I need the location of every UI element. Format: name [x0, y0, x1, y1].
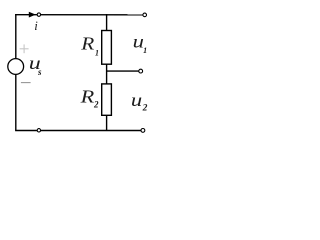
polarity minus [21, 82, 31, 84]
svg-text:2: 2 [142, 104, 148, 114]
wire: middle branch bottom segment [106, 115, 108, 131]
terminal middle right [139, 69, 143, 73]
wire: bottom horizontal [15, 130, 141, 132]
terminal bottom right [141, 129, 145, 133]
node a (top, open circle) [37, 13, 40, 16]
wire: middle tap to terminal [107, 70, 139, 72]
wire: top horizontal [15, 14, 143, 16]
svg-text:2: 2 [93, 99, 99, 109]
resistor R2 [102, 84, 112, 115]
svg-text:R: R [79, 87, 94, 107]
polarity plus [20, 44, 29, 53]
current arrow i [29, 12, 36, 18]
svg-text:1: 1 [95, 49, 99, 58]
resistor R1 [102, 31, 112, 65]
terminal top right [143, 13, 147, 17]
voltage source us [8, 59, 24, 75]
svg-text:i: i [34, 19, 38, 33]
wire: between R1 and R2 [106, 64, 108, 84]
svg-text:u: u [131, 90, 142, 110]
svg-text:R: R [80, 34, 95, 54]
node b (bottom, open circle) [37, 129, 40, 132]
wire: left vertical branch [15, 14, 17, 131]
svg-text:s: s [37, 67, 42, 77]
svg-text:1: 1 [143, 46, 147, 55]
wire: middle branch top segment [106, 14, 108, 31]
